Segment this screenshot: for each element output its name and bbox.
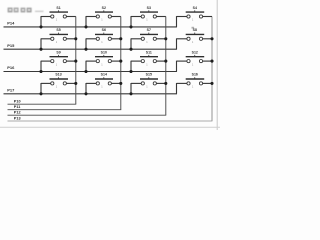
wire S12 left pin to row bbox=[177, 60, 187, 62]
svg-text:S5: S5 bbox=[56, 28, 60, 32]
pushbutton S5 bbox=[50, 28, 69, 44]
svg-text:S16: S16 bbox=[192, 73, 198, 77]
svg-text:S14: S14 bbox=[101, 73, 107, 77]
wire S4 left pin to row bbox=[177, 16, 187, 18]
wire column bus line P11 bbox=[8, 109, 122, 111]
wire S8 right pin to column bbox=[203, 38, 212, 40]
node junction column S6 bbox=[119, 37, 122, 40]
node junction column S15 bbox=[164, 82, 167, 85]
node junction riser S9 bbox=[39, 70, 42, 73]
wire S7 left pin to row bbox=[131, 38, 141, 40]
node junction riser S14 bbox=[84, 92, 87, 95]
pushbutton S14 bbox=[95, 73, 113, 89]
svg-text:P12: P12 bbox=[14, 111, 21, 115]
node junction column S14 bbox=[119, 82, 122, 85]
svg-text:P11: P11 bbox=[14, 105, 21, 109]
pushbutton S15 bbox=[140, 73, 158, 89]
svg-text:P14: P14 bbox=[7, 21, 15, 26]
pushbutton S6 bbox=[95, 28, 113, 44]
wire column 2 vertical bbox=[120, 17, 122, 110]
wire S15 left pin to row bbox=[131, 82, 141, 84]
wire column 3 vertical bbox=[165, 17, 167, 116]
wire column 4 vertical bbox=[211, 17, 213, 122]
wire S8 left pin to row bbox=[177, 38, 187, 40]
svg-text:P13: P13 bbox=[14, 116, 21, 120]
pushbutton S1 bbox=[50, 6, 69, 22]
svg-text:S11: S11 bbox=[146, 50, 152, 54]
node junction column S12 bbox=[210, 60, 213, 63]
node junction column S8 bbox=[210, 37, 213, 40]
pushbutton S16 bbox=[186, 73, 205, 89]
node junction riser S7 bbox=[129, 48, 132, 51]
pushbutton S2 bbox=[95, 6, 113, 22]
wire column bus line P10 bbox=[8, 103, 77, 105]
svg-text:S6: S6 bbox=[102, 28, 106, 32]
node junction riser S10 bbox=[84, 70, 87, 73]
svg-text:S4: S4 bbox=[193, 6, 197, 10]
wire S5 right pin to column bbox=[66, 38, 75, 40]
pushbutton S13 bbox=[50, 73, 69, 89]
svg-text:S2: S2 bbox=[102, 6, 106, 10]
node junction riser S13 bbox=[39, 92, 42, 95]
wire S5 left pin to row bbox=[41, 38, 51, 40]
pushbutton S8 bbox=[186, 28, 205, 44]
wire S1 right pin to column bbox=[66, 16, 75, 18]
node junction riser S5 bbox=[39, 48, 42, 51]
page border bottom bbox=[0, 126, 220, 128]
stray mark near S4 bbox=[192, 27, 195, 29]
pushbutton S4 bbox=[186, 6, 205, 22]
wire column 1 vertical bbox=[75, 17, 77, 105]
node junction column S9 bbox=[74, 60, 77, 63]
wire S10 right pin to column bbox=[111, 60, 120, 62]
svg-text:P17: P17 bbox=[7, 88, 15, 93]
wire row line P16 bbox=[4, 71, 177, 73]
wire column bus line P12 bbox=[8, 114, 167, 116]
page border right bbox=[216, 0, 218, 130]
svg-text:S8: S8 bbox=[193, 28, 197, 32]
wire S3 left pin to row bbox=[131, 16, 141, 18]
wire S9 right pin to column bbox=[66, 60, 75, 62]
node junction column S5 bbox=[74, 37, 77, 40]
svg-text:S9: S9 bbox=[56, 50, 60, 54]
wire row line P14 bbox=[4, 26, 177, 28]
wire S1 left pin to row bbox=[41, 16, 51, 18]
wire S11 left pin to row bbox=[131, 60, 141, 62]
node junction column S11 bbox=[164, 60, 167, 63]
node junction column S10 bbox=[119, 60, 122, 63]
wire S4 right pin to column bbox=[203, 16, 212, 18]
pushbutton S9 bbox=[50, 50, 69, 66]
wire S6 right pin to column bbox=[111, 38, 120, 40]
wire S3 right pin to column bbox=[156, 16, 165, 18]
node junction riser S2 bbox=[84, 25, 87, 28]
svg-text:S15: S15 bbox=[146, 73, 152, 77]
pushbutton S11 bbox=[140, 50, 158, 66]
wire S16 right pin to column bbox=[203, 82, 212, 84]
node junction riser S15 bbox=[129, 92, 132, 95]
wire S13 right pin to column bbox=[66, 82, 75, 84]
pushbutton S12 bbox=[186, 50, 205, 66]
wire S2 left pin to row bbox=[86, 16, 96, 18]
svg-text:S10: S10 bbox=[101, 50, 107, 54]
wire row line P15 bbox=[4, 48, 177, 50]
wire S11 right pin to column bbox=[156, 60, 165, 62]
svg-text:P16: P16 bbox=[7, 65, 15, 70]
node junction column S7 bbox=[164, 37, 167, 40]
wire S14 right pin to column bbox=[111, 82, 120, 84]
svg-text:P10: P10 bbox=[14, 100, 21, 104]
wire S15 right pin to column bbox=[156, 82, 165, 84]
wire S7 right pin to column bbox=[156, 38, 165, 40]
svg-text:S1: S1 bbox=[56, 6, 60, 10]
wire S10 left pin to row bbox=[86, 60, 96, 62]
wire S2 right pin to column bbox=[111, 16, 120, 18]
pushbutton S10 bbox=[95, 50, 113, 66]
wire S14 left pin to row bbox=[86, 82, 96, 84]
pushbutton S3 bbox=[140, 6, 158, 22]
svg-text:S7: S7 bbox=[147, 28, 151, 32]
node junction column S16 bbox=[210, 82, 213, 85]
wire column bus line P13 bbox=[8, 120, 213, 122]
node junction riser S3 bbox=[129, 25, 132, 28]
wire S6 left pin to row bbox=[86, 38, 96, 40]
svg-text:S3: S3 bbox=[147, 6, 151, 10]
wire row line P17 bbox=[4, 93, 177, 95]
node junction column S13 bbox=[74, 82, 77, 85]
svg-text:S12: S12 bbox=[192, 50, 198, 54]
node junction riser S6 bbox=[84, 48, 87, 51]
title text top-left bbox=[8, 8, 44, 13]
wire S13 left pin to row bbox=[41, 82, 51, 84]
svg-text:P15: P15 bbox=[7, 43, 15, 48]
wire S9 left pin to row bbox=[41, 60, 51, 62]
node junction riser S1 bbox=[39, 25, 42, 28]
wire S12 right pin to column bbox=[203, 60, 212, 62]
svg-text:S13: S13 bbox=[55, 73, 61, 77]
pushbutton S7 bbox=[140, 28, 158, 44]
node junction riser S11 bbox=[129, 70, 132, 73]
wire S16 left pin to row bbox=[177, 82, 187, 84]
